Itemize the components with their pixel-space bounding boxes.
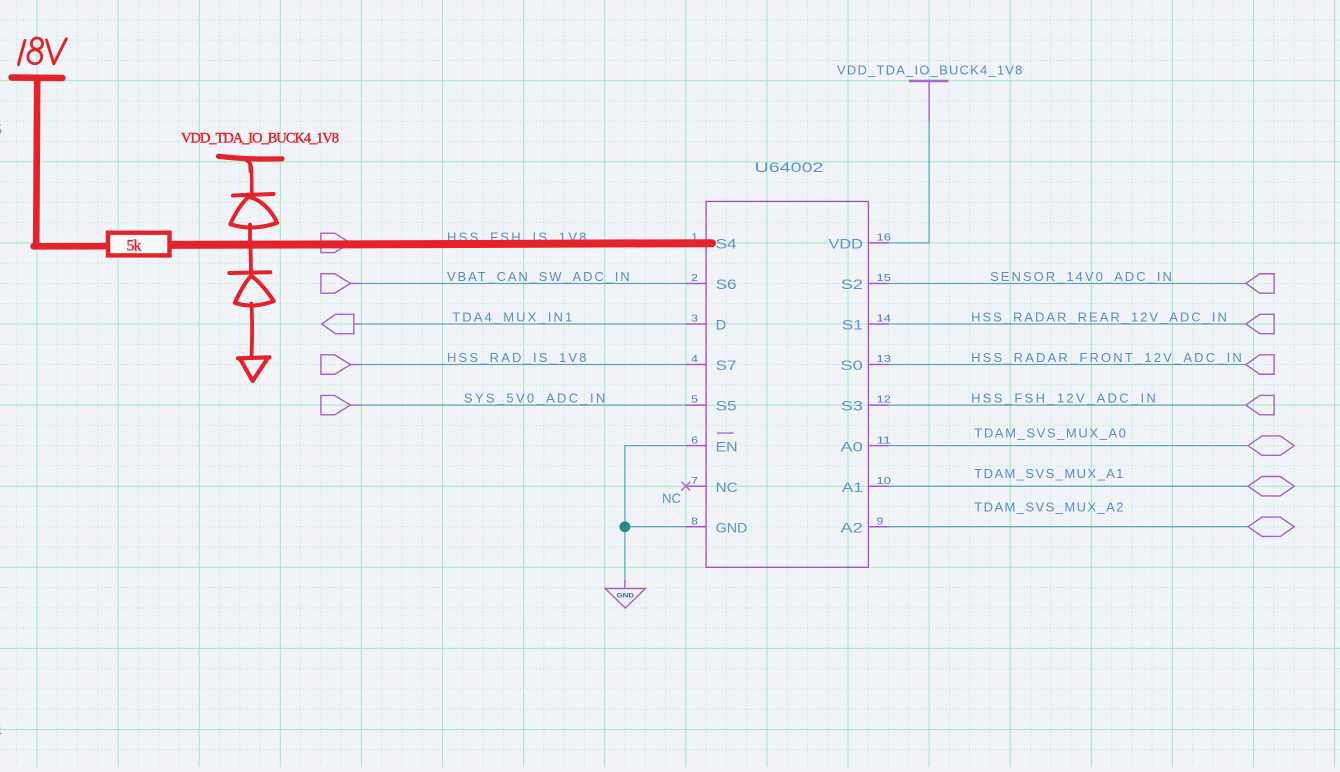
svg-text:15: 15	[877, 273, 892, 284]
svg-text:2: 2	[691, 273, 698, 284]
wire TDAM_SVS_MUX_A2	[889, 526, 1248, 528]
pin 7 (NC)	[686, 476, 738, 495]
sheet pin HSS_RADAR_FRONT_12V_ADC_IN	[1246, 355, 1274, 374]
annotation ground arrow	[238, 357, 270, 358]
wire TDAM_SVS_MUX_A0	[889, 445, 1248, 447]
svg-text:S7: S7	[716, 358, 737, 373]
sheet pin TDA4_MUX_IN1	[322, 314, 362, 333]
svg-text:U64002: U64002	[755, 160, 824, 175]
resistor 5k (annotation)	[108, 233, 170, 256]
svg-text:GND: GND	[716, 520, 748, 535]
pin 11 (A0)	[840, 435, 891, 454]
svg-text:VDD_TDA_IO_BUCK4_1V8: VDD_TDA_IO_BUCK4_1V8	[181, 131, 339, 147]
svg-text:GND: GND	[617, 594, 635, 600]
annotation junction blob	[246, 240, 254, 248]
pin 3 (D)	[686, 314, 726, 333]
diode D2 (annotation)	[229, 248, 273, 357]
svg-text:13: 13	[877, 354, 892, 365]
no-connect pin 7	[662, 482, 690, 506]
sheet pin SYS_5V0_ADC_IN	[321, 395, 362, 414]
svg-text:5: 5	[0, 123, 2, 139]
svg-text:7: 7	[691, 476, 698, 487]
svg-text:16: 16	[877, 233, 892, 244]
svg-text:EN: EN	[716, 439, 738, 454]
annotation net line 18V (thick)	[168, 243, 713, 245]
svg-text:S1: S1	[842, 318, 863, 333]
ground	[605, 580, 645, 608]
svg-text:S6: S6	[716, 277, 737, 292]
svg-text:14: 14	[877, 314, 892, 325]
svg-text:VDD: VDD	[829, 237, 863, 252]
wire VBAT_CAN_SW_ADC_IN	[361, 282, 685, 284]
pin 16 (VDD)	[829, 233, 892, 252]
pin 1 (S4)	[686, 233, 737, 252]
pin 4 (S7)	[686, 354, 737, 373]
svg-text:NC: NC	[716, 480, 738, 495]
svg-text:8: 8	[691, 516, 698, 527]
svg-text:VDD_TDA_IO_BUCK4_1V8: VDD_TDA_IO_BUCK4_1V8	[837, 63, 1022, 78]
svg-text:NC: NC	[662, 491, 681, 506]
svg-text:HSS_FSH_12V_ADC_IN: HSS_FSH_12V_ADC_IN	[971, 391, 1156, 406]
svg-text:S3: S3	[841, 399, 863, 414]
svg-text:11: 11	[877, 435, 892, 446]
wire node to GND pin	[625, 526, 686, 528]
annotation text 18V	[19, 38, 67, 65]
svg-text:S4: S4	[716, 237, 737, 252]
svg-text:TDAM_SVS_MUX_A1: TDAM_SVS_MUX_A1	[974, 466, 1123, 481]
svg-text:HSS_RADAR_REAR_12V_ADC_IN: HSS_RADAR_REAR_12V_ADC_IN	[971, 309, 1227, 324]
svg-text:A2: A2	[840, 520, 863, 535]
svg-text:SENSOR_14V0_ADC_IN: SENSOR_14V0_ADC_IN	[990, 269, 1172, 284]
svg-text:5k: 5k	[127, 238, 142, 255]
svg-text:10: 10	[877, 476, 892, 487]
annotation power bar mid	[219, 156, 283, 159]
svg-text:A1: A1	[842, 480, 863, 495]
pin 14 (S1)	[842, 314, 891, 333]
sheet pin TDAM_SVS_MUX_A1	[1248, 477, 1294, 496]
wire TDA4_MUX_IN1	[361, 323, 685, 325]
sheet pin SENSOR_14V0_ADC_IN	[1246, 274, 1274, 293]
svg-text:A0: A0	[840, 439, 863, 454]
sheet pin VBAT_CAN_SW_ADC_IN	[321, 274, 362, 293]
sheet pin TDAM_SVS_MUX_A2	[1248, 517, 1294, 536]
svg-text:S2: S2	[841, 277, 863, 292]
wire SENSOR_14V0_ADC_IN	[889, 282, 1246, 284]
svg-text:S5: S5	[716, 399, 737, 414]
wire TDAM_SVS_MUX_A1	[889, 485, 1248, 487]
wire VDD vertical	[889, 121, 930, 243]
wire HSS_RADAR_FRONT_12V_ADC_IN	[889, 364, 1246, 366]
pin 10 (A1)	[842, 476, 891, 495]
pin 2 (S6)	[686, 273, 737, 292]
power symbol VDD bar	[909, 81, 948, 121]
pin 13 (S0)	[840, 354, 891, 373]
wire node down to ground	[624, 527, 626, 580]
pin 9 (A2)	[840, 516, 888, 535]
wire HSS_FSH_IS_1V8	[361, 242, 685, 244]
IC U64002 body	[706, 201, 868, 567]
svg-text:D: D	[716, 318, 727, 333]
svg-text:3: 3	[691, 314, 698, 325]
pin 5 (S5)	[686, 395, 737, 414]
pin 15 (S2)	[841, 273, 891, 292]
sheet pin HSS_FSH_12V_ADC_IN	[1246, 395, 1274, 414]
pin 12 (S3)	[841, 395, 891, 414]
annotation wire 18V trunk	[34, 80, 111, 246]
svg-text:9: 9	[877, 516, 884, 527]
svg-text:VBAT_CAN_SW_ADC_IN: VBAT_CAN_SW_ADC_IN	[447, 269, 630, 284]
svg-text:5: 5	[691, 395, 698, 406]
svg-text:TDA4_MUX_IN1: TDA4_MUX_IN1	[452, 309, 572, 324]
svg-text:4: 4	[691, 354, 698, 365]
wire SYS_5V0_ADC_IN	[361, 404, 685, 406]
wire HSS_RAD_IS_1V8	[361, 364, 685, 366]
sheet pin HSS_FSH_IS_1V8	[321, 233, 362, 252]
svg-text:6: 6	[691, 435, 698, 446]
annotation wire bar to D1	[246, 160, 252, 193]
sheet pin HSS_RADAR_REAR_12V_ADC_IN	[1246, 314, 1274, 333]
sheet pin HSS_RAD_IS_1V8	[321, 355, 362, 374]
annotation 18V power bar	[12, 74, 63, 81]
svg-text:4: 4	[0, 725, 2, 741]
wire HSS_RADAR_REAR_12V_ADC_IN	[889, 323, 1246, 325]
svg-text:12: 12	[877, 395, 892, 406]
junction	[620, 521, 631, 532]
wire HSS_FSH_12V_ADC_IN	[889, 404, 1246, 406]
svg-text:TDAM_SVS_MUX_A0: TDAM_SVS_MUX_A0	[974, 425, 1126, 440]
svg-text:S0: S0	[840, 358, 863, 373]
pin 8 (GND)	[686, 516, 748, 535]
pin 6 (EN)	[686, 433, 738, 454]
wire EN to node	[625, 446, 686, 527]
diode D1 (annotation)	[230, 194, 277, 242]
sheet pin TDAM_SVS_MUX_A0	[1248, 436, 1294, 455]
svg-text:TDAM_SVS_MUX_A2: TDAM_SVS_MUX_A2	[974, 499, 1123, 514]
